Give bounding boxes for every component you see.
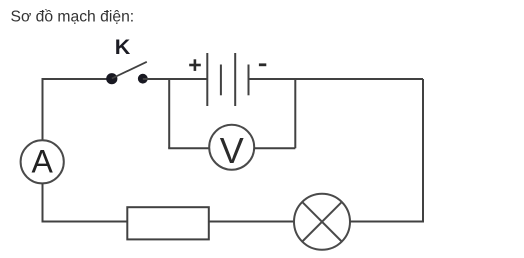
- wire: lamp to bottom-right corner and up right side: [350, 79, 423, 222]
- cell 1 long plate (+): [206, 53, 208, 106]
- lamp L1: [294, 194, 350, 250]
- battery B1 (two cells): [207, 53, 248, 106]
- wire: voltmeter branch bottom-left horizontal: [169, 147, 209, 148]
- wire: voltmeter branch left vertical: [168, 79, 170, 148]
- switch lever: [112, 62, 147, 79]
- svg-text:K: K: [115, 35, 131, 59]
- switch K (open): [106, 62, 148, 84]
- wire: voltmeter branch bottom-right horizontal: [254, 147, 295, 149]
- label - (battery negative): [259, 63, 266, 66]
- wire: resistor to lamp: [209, 221, 294, 223]
- wire: top-left segment from corner to switch: [43, 79, 113, 141]
- wire: ammeter to bottom-left corner: [43, 183, 128, 221]
- svg-text:A: A: [32, 144, 54, 180]
- svg-text:Sơ đồ mạch điện:: Sơ đồ mạch điện:: [11, 8, 135, 25]
- wire: switch to battery: [143, 78, 208, 80]
- switch left contact dot: [106, 73, 117, 84]
- resistor R1: [127, 207, 209, 239]
- switch right contact dot: [138, 74, 148, 84]
- wire: battery to top-right corner: [249, 78, 424, 80]
- cell 2 long plate: [234, 53, 236, 106]
- svg-text:V: V: [220, 130, 244, 171]
- wire: voltmeter branch right vertical: [294, 79, 296, 148]
- cell 1 short plate: [220, 65, 222, 96]
- ammeter A1: [21, 140, 64, 183]
- label + (battery positive): [189, 59, 201, 71]
- cell 2 short plate (-): [248, 65, 250, 96]
- voltmeter V1: [209, 125, 254, 170]
